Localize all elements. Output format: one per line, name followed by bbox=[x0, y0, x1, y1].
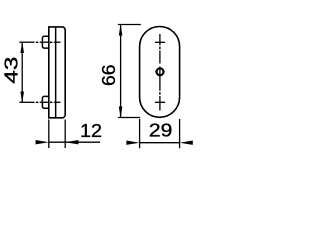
arrow 66 top bbox=[119, 24, 123, 36]
side-view plate outline bbox=[49, 27, 65, 118]
extension line 66 bottom bbox=[118, 117, 140, 119]
arrow 43 top bbox=[20, 41, 24, 53]
arrow 66 bottom bbox=[119, 107, 123, 119]
extension line 12 left bbox=[48, 120, 50, 149]
svg-text:29: 29 bbox=[149, 120, 173, 140]
vertical centerline of oval bbox=[159, 34, 161, 111]
extension line 29 right bbox=[179, 119, 181, 148]
horizontal centerline tick right of spindle hole bbox=[162, 71, 164, 73]
arrow 29 left (outside, pointing right) bbox=[126, 141, 139, 145]
side-view face edge line bbox=[55, 27, 57, 118]
horizontal centerline tick left of spindle hole bbox=[155, 71, 157, 73]
arrow 43 bottom bbox=[20, 92, 24, 104]
svg-text:43: 43 bbox=[2, 57, 22, 84]
arrow 29 right (outside, pointing left) bbox=[180, 141, 193, 145]
dimension line 66 bbox=[120, 25, 122, 118]
svg-text:12: 12 bbox=[80, 121, 102, 141]
dimension line 43 bbox=[21, 42, 23, 102]
svg-text:66: 66 bbox=[99, 64, 119, 86]
dimension line 29 bbox=[140, 142, 180, 144]
oval rose outline bbox=[140, 27, 180, 118]
extension line 66 top bbox=[118, 24, 141, 26]
extension line 12 right bbox=[64, 120, 66, 149]
screw hole cross bottom bbox=[155, 101, 165, 103]
arrow 12 right (outside, pointing left) bbox=[65, 140, 78, 144]
screw hole cross top bbox=[155, 41, 165, 43]
arrow 12 left (outside, pointing right) bbox=[36, 140, 49, 144]
screw post top bbox=[42, 36, 48, 48]
centerline top screw bbox=[19, 41, 60, 43]
dimension line 12 bbox=[49, 141, 65, 143]
centerline bottom screw bbox=[19, 101, 60, 103]
extension line 29 left bbox=[139, 119, 141, 148]
screw post bottom bbox=[42, 96, 48, 108]
spindle hole circle bbox=[157, 68, 164, 75]
